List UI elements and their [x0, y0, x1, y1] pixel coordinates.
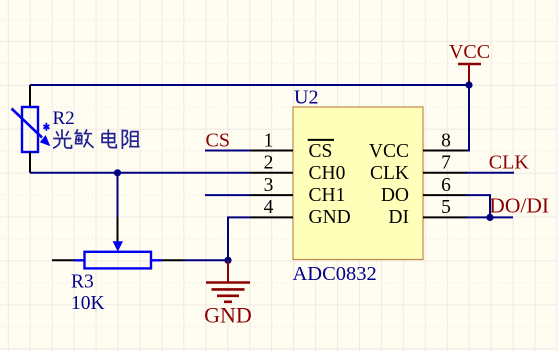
power port VCC	[449, 41, 490, 85]
敏	[74, 129, 93, 147]
pin 5 DI	[423, 216, 467, 218]
svg-text:CLK: CLK	[489, 152, 530, 174]
svg-text:CS: CS	[206, 129, 230, 151]
wire top horizontal R2 to VCC rail	[30, 84, 469, 86]
svg-text:1: 1	[264, 130, 274, 151]
svg-text:DO: DO	[381, 185, 409, 206]
junction R3 wiper tap	[114, 169, 121, 176]
wire VCC rail down to pin 8	[466, 85, 469, 151]
svg-text:3: 3	[264, 175, 274, 196]
svg-text:R3: R3	[71, 272, 94, 293]
label 光敏电阻 (photoresistor) drawn strokes	[53, 129, 139, 149]
svg-text:4: 4	[264, 197, 274, 218]
光	[53, 129, 71, 148]
pin 8 VCC	[423, 150, 467, 152]
电	[102, 129, 116, 147]
pin 3 CH1	[251, 194, 294, 196]
svg-text:10K: 10K	[71, 293, 105, 314]
阻	[122, 130, 139, 150]
svg-text:CH0: CH0	[309, 163, 346, 184]
op-amp U2 ADC0832 chip body	[293, 107, 423, 260]
pin 6 DO	[423, 194, 467, 196]
wire R3 right lead to GND node	[184, 259, 229, 261]
svg-text:7: 7	[441, 153, 451, 174]
svg-text:R2: R2	[53, 108, 75, 129]
pin 1 CS	[251, 150, 294, 152]
junction DO/DI	[486, 214, 493, 221]
svg-text:VCC: VCC	[449, 41, 490, 63]
svg-text:DO/DI: DO/DI	[489, 194, 549, 218]
svg-text:GND: GND	[309, 207, 351, 228]
resistor R3 potentiometer	[52, 217, 184, 268]
wire DO to DI join	[466, 195, 490, 217]
svg-text:2: 2	[264, 153, 274, 174]
svg-text:DI: DI	[388, 207, 409, 228]
pin 2 CH0	[251, 172, 294, 174]
wire CLK net	[466, 172, 514, 174]
svg-text:GND: GND	[204, 303, 252, 328]
wire CS net stub	[205, 150, 251, 152]
svg-text:5: 5	[441, 197, 451, 218]
svg-text:VCC: VCC	[369, 141, 409, 162]
svg-text:ADC0832: ADC0832	[293, 263, 377, 285]
svg-text:6: 6	[441, 175, 451, 196]
ground GND	[206, 260, 250, 302]
wire DI net	[466, 216, 513, 218]
wire bottom horizontal R2 to pin 2	[30, 172, 251, 174]
resistor R2 (photoresistor)	[12, 85, 51, 173]
pin 4 GND	[251, 216, 294, 218]
wire wiper vertical	[117, 173, 119, 217]
wire pin 4 to GND node	[228, 217, 251, 260]
junction GND node	[224, 257, 231, 264]
svg-text:CH1: CH1	[309, 185, 346, 206]
svg-text:8: 8	[441, 130, 451, 151]
svg-text:U2: U2	[294, 86, 318, 108]
junction VCC rail / top wire	[465, 81, 472, 88]
pin 7 CLK	[423, 172, 467, 174]
svg-text:CLK: CLK	[370, 163, 409, 184]
wire CH1 stub	[205, 194, 251, 196]
svg-text:CS: CS	[309, 141, 333, 162]
